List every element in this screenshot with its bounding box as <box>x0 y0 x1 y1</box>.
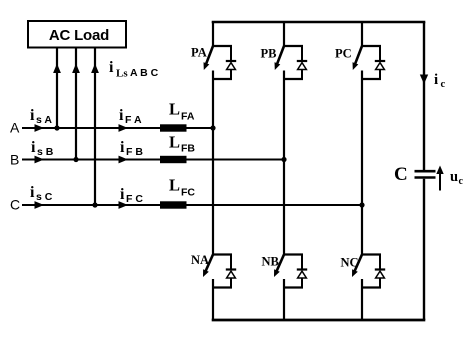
source current arrow isB <box>35 156 45 164</box>
wire: AC Load to phase A line <box>56 48 58 129</box>
switch NC blade with arrow <box>354 255 362 272</box>
diode DPA anode-cathode branch wire upper <box>230 46 232 61</box>
diode DNA branch wire lower <box>230 278 232 288</box>
diode DPB triangle <box>298 63 307 70</box>
wire: dc link branch lower <box>423 179 425 320</box>
diode DNC cathode bar <box>375 268 385 270</box>
switch NB bottom connector wire <box>283 286 303 288</box>
switch PC blade with arrow <box>355 46 362 65</box>
svg-text:AC Load: AC Load <box>49 27 109 44</box>
junction node: phase A to leg A <box>210 125 215 130</box>
junction node: phase B to leg B <box>281 157 286 162</box>
svg-text:C: C <box>394 164 408 185</box>
svg-text:C: C <box>10 197 20 213</box>
switch NB top connector wire <box>283 253 303 255</box>
wire: leg B to bottom bus <box>283 279 285 320</box>
svg-text:i: i <box>30 184 35 201</box>
junction node on phase B line <box>73 157 78 162</box>
load current arrow (up) on phase A feeder <box>53 64 61 74</box>
svg-text:NB: NB <box>262 255 279 269</box>
svg-text:F B: F B <box>126 146 143 158</box>
diode DPA branch wire lower <box>230 70 232 80</box>
svg-text:i: i <box>120 139 125 156</box>
diode DNA anode-cathode branch wire upper <box>230 255 232 270</box>
wire: phase B horizontal line <box>22 158 284 160</box>
svg-text:L: L <box>169 100 180 119</box>
wire: leg B midsection <box>283 71 285 255</box>
svg-text:PC: PC <box>335 47 352 61</box>
wire: phase C horizontal line <box>22 204 362 206</box>
diode DPC triangle <box>376 63 385 70</box>
svg-text:s A: s A <box>36 114 52 126</box>
svg-text:NA: NA <box>191 253 209 267</box>
wire: leg C from top bus to switch PC <box>361 22 363 46</box>
svg-text:s B: s B <box>37 146 54 158</box>
svg-text:FC: FC <box>181 187 195 199</box>
diode DPC anode-cathode branch wire upper <box>379 46 381 61</box>
inductor LFA <box>160 124 187 131</box>
AC Load block <box>28 21 126 48</box>
filter current arrow iFA <box>119 124 129 132</box>
diode DNC anode-cathode branch wire upper <box>379 255 381 270</box>
svg-text:A: A <box>10 120 20 136</box>
svg-text:i: i <box>119 107 124 124</box>
svg-text:i: i <box>434 72 438 88</box>
switch PC top connector wire <box>361 45 381 47</box>
switch PB bottom connector wire <box>283 78 303 80</box>
wire: leg B from top bus to switch PB <box>283 22 285 46</box>
diode DNB anode-cathode branch wire upper <box>301 255 303 270</box>
diode DPC branch wire lower <box>379 70 381 80</box>
diode DPB cathode bar <box>297 60 307 62</box>
diode DPC cathode bar <box>375 60 385 62</box>
switch NC top connector wire <box>361 253 381 255</box>
svg-text:L: L <box>169 176 180 195</box>
switch NA top connector wire <box>212 253 232 255</box>
filter current arrow iFB <box>119 156 129 164</box>
junction node on phase C line <box>92 202 97 207</box>
wire: positive dc bus (top rail) <box>212 21 426 24</box>
svg-text:u: u <box>450 169 458 185</box>
diode DPB anode-cathode branch wire upper <box>301 46 303 61</box>
svg-text:F A: F A <box>125 114 142 126</box>
svg-text:FB: FB <box>181 143 195 155</box>
diode DPA cathode bar <box>226 60 236 62</box>
wire: AC Load to phase C line <box>94 48 96 206</box>
diode DNB branch wire lower <box>301 278 303 288</box>
wire: AC Load to phase B line <box>75 48 77 160</box>
capacitor voltage arrow uc (up) <box>439 172 441 191</box>
svg-text:i: i <box>30 107 35 124</box>
diode DNB triangle <box>298 271 307 278</box>
capacitor C plates <box>415 170 436 173</box>
load current arrow (up) on phase B feeder <box>72 64 80 74</box>
svg-text:s C: s C <box>36 191 53 203</box>
switch PB top connector wire <box>283 45 303 47</box>
switch NC bottom connector wire <box>361 286 381 288</box>
wire: leg A from top bus to switch PA <box>212 22 214 46</box>
inductor LFB <box>160 156 187 163</box>
switch NA bottom connector wire <box>212 286 232 288</box>
diode DNA triangle <box>227 271 236 278</box>
filter current arrow iFC <box>119 201 129 209</box>
wire: dc link branch upper <box>423 22 425 170</box>
switch PA bottom connector wire <box>212 78 232 80</box>
diode DNA cathode bar <box>226 268 236 270</box>
diode DNB cathode bar <box>297 268 307 270</box>
svg-text:Ls: Ls <box>116 68 128 80</box>
switch PA top connector wire <box>212 45 232 47</box>
wire: leg A midsection <box>212 71 214 255</box>
wire: leg C to bottom bus <box>361 279 363 320</box>
svg-text:i: i <box>31 139 36 156</box>
source current arrow isC <box>35 201 45 209</box>
junction node on phase A line <box>54 125 59 130</box>
svg-text:B: B <box>10 152 19 168</box>
wire: leg A to bottom bus <box>212 279 214 320</box>
diode DPB branch wire lower <box>301 70 303 80</box>
dc current arrow ic <box>420 75 428 85</box>
svg-text:i: i <box>120 186 125 203</box>
switch PC bottom connector wire <box>361 78 381 80</box>
svg-text:PA: PA <box>191 46 207 60</box>
svg-text:FA: FA <box>181 111 195 123</box>
source current arrow isA <box>35 124 45 132</box>
wire: negative dc bus (bottom rail) <box>212 319 426 322</box>
svg-text:c: c <box>459 176 464 187</box>
svg-text:i: i <box>109 59 114 76</box>
diode DNC branch wire lower <box>379 278 381 288</box>
load current arrow (up) on phase C feeder <box>91 64 99 74</box>
svg-text:PB: PB <box>261 47 277 61</box>
switch PB blade with arrow <box>277 46 284 65</box>
svg-text:A B C: A B C <box>130 67 159 79</box>
svg-text:L: L <box>169 133 180 152</box>
inductor LFC <box>160 201 187 208</box>
junction node: phase C to leg C <box>359 202 364 207</box>
wire: leg C midsection <box>361 71 363 255</box>
wire: phase A horizontal line <box>22 127 213 129</box>
diode DNC triangle <box>376 271 385 278</box>
diode DPA triangle <box>227 63 236 70</box>
svg-text:c: c <box>441 79 446 90</box>
switch NA blade with arrow <box>205 255 213 272</box>
svg-text:F C: F C <box>126 193 143 205</box>
switch PA blade with arrow <box>206 46 213 65</box>
switch NB blade with arrow <box>276 255 284 272</box>
